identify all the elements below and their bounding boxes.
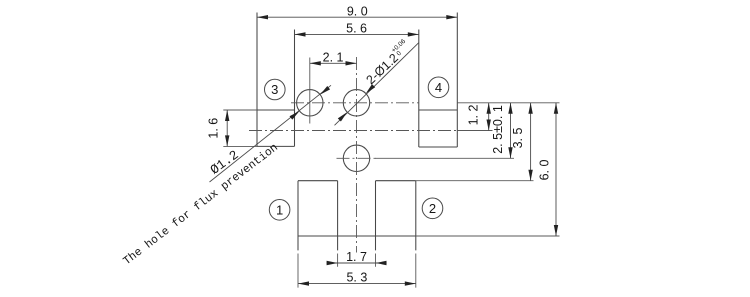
centerline horizontal main: [249, 130, 457, 132]
svg-text:1. 2: 1. 2: [467, 105, 481, 126]
dimension 5.3 line: [298, 283, 416, 285]
svg-text:5. 6: 5. 6: [346, 21, 367, 35]
hole H3 bottom flux: [343, 145, 369, 171]
extension prong top line to 3.5 dim: [416, 180, 534, 182]
dimension 3.5 line: [530, 103, 532, 181]
bottom edge line across prongs: [298, 235, 416, 237]
pad 1 prong outline: [298, 181, 338, 251]
extension prong inner edges to 1.7 dim: [338, 254, 376, 267]
extension left hole vertical: [309, 58, 311, 124]
centerline vertical main: [356, 57, 358, 253]
balloon 2: [422, 198, 443, 219]
svg-text:4: 4: [435, 80, 442, 95]
svg-text:2-Ø1.2: 2-Ø1.2: [363, 51, 401, 87]
centerline bottom hole: [337, 157, 379, 159]
extension 1.6 horizontals: [223, 110, 257, 146]
dimension 1.6 line: [226, 110, 228, 146]
svg-text:3. 5: 3. 5: [511, 128, 525, 149]
svg-text:5. 3: 5. 3: [346, 270, 367, 284]
balloon 3: [265, 79, 286, 100]
svg-text:2: 2: [429, 201, 436, 216]
extension top holes line to right dims: [457, 102, 559, 104]
pad 3 outline: [257, 13, 295, 147]
hole H2 right top: [343, 90, 369, 116]
extension prong outer edges to 5.3 dim: [298, 254, 416, 288]
dimension 1.7 line: [327, 262, 387, 264]
pad 4 outline: [419, 13, 458, 148]
dimension 6.0 line: [555, 103, 557, 236]
svg-text:1. 7: 1. 7: [346, 250, 367, 264]
svg-text:The hole for flux prevention: The hole for flux prevention: [122, 142, 281, 268]
balloon 4: [428, 77, 449, 98]
leader diagonal right hole: [335, 43, 419, 126]
svg-text:3: 3: [271, 82, 278, 97]
svg-text:2. 1: 2. 1: [323, 50, 344, 64]
extension bottom line to 6.0 dim: [416, 235, 560, 237]
svg-text:1: 1: [276, 202, 283, 217]
dimension 1.2 line: [488, 103, 490, 131]
svg-text:1. 6: 1. 6: [207, 118, 221, 139]
dimension 2.5+-0.1 line: [510, 103, 512, 159]
extension bottom hole to 2.5 dim: [375, 157, 514, 159]
pad 2 prong outline: [376, 181, 416, 251]
label 2-dia1.2 with tolerance: [362, 38, 413, 87]
leader diagonal left hole: [210, 85, 332, 182]
centerline horizontal extension to 1.2 dim: [457, 130, 492, 132]
dimension 5.6 line: [295, 33, 419, 35]
hole H1 left top: [297, 90, 323, 116]
svg-text:6. 0: 6. 0: [538, 160, 552, 181]
dimension 9.0 line: [257, 16, 457, 18]
svg-text:2. 5±0. 1: 2. 5±0. 1: [491, 105, 505, 154]
balloon 1: [269, 200, 290, 221]
centerline top holes: [291, 102, 419, 104]
svg-text:9. 0: 9. 0: [347, 4, 368, 18]
dimension 2.1 line: [310, 62, 357, 64]
